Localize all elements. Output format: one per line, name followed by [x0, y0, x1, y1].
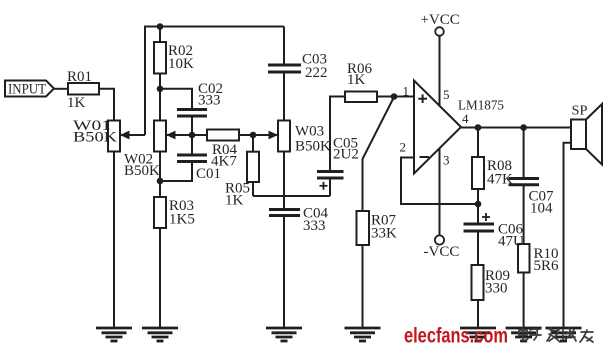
svg-text:10K: 10K: [168, 56, 194, 72]
svg-text:2: 2: [400, 140, 407, 155]
svg-text:5: 5: [443, 87, 450, 102]
svg-text:W03: W03: [295, 124, 324, 140]
svg-text:-VCC: -VCC: [424, 244, 460, 260]
svg-text:1K5: 1K5: [169, 212, 195, 228]
svg-text:4: 4: [462, 111, 469, 126]
svg-text:3: 3: [443, 153, 450, 168]
svg-text:333: 333: [198, 93, 221, 109]
svg-text:333: 333: [303, 218, 326, 234]
svg-text:5R6: 5R6: [534, 258, 560, 274]
svg-text:SP: SP: [572, 104, 588, 119]
svg-text:1K: 1K: [225, 193, 244, 209]
svg-text:1K: 1K: [67, 95, 86, 111]
svg-text:47U: 47U: [498, 234, 524, 250]
svg-text:330: 330: [485, 281, 508, 297]
svg-text:222: 222: [305, 65, 328, 81]
svg-text:2U2: 2U2: [333, 147, 359, 163]
svg-text:33K: 33K: [371, 226, 397, 242]
svg-text:elecfans.com: elecfans.com: [404, 325, 508, 348]
svg-text:INPUT: INPUT: [8, 82, 46, 98]
svg-text:1K: 1K: [347, 72, 366, 88]
svg-text:+VCC: +VCC: [421, 12, 460, 28]
svg-text:104: 104: [530, 201, 553, 217]
svg-text:B50K: B50K: [73, 130, 117, 146]
svg-text:R01: R01: [67, 69, 92, 85]
svg-text:47K: 47K: [487, 172, 513, 188]
svg-text:B50K: B50K: [124, 163, 160, 179]
svg-text:4K7: 4K7: [211, 154, 237, 170]
svg-text:1: 1: [403, 84, 410, 99]
svg-text:B50K: B50K: [295, 139, 331, 155]
